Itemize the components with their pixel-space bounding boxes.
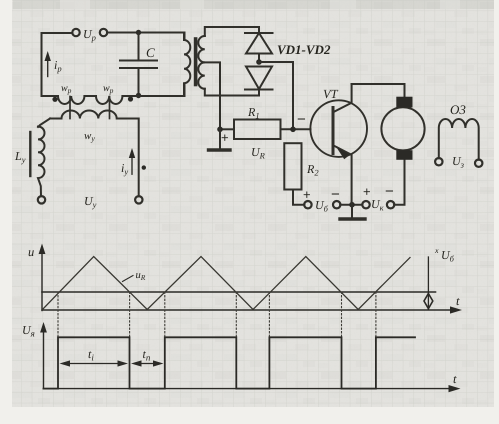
terminal OZ left bbox=[435, 158, 442, 165]
junction between diodes bbox=[256, 59, 262, 65]
terminal Up right bbox=[100, 29, 107, 36]
transistor VT emitter with arrow bbox=[334, 146, 352, 205]
wire: top rail left corner to Up left terminal bbox=[42, 33, 73, 96]
inductor Ly bbox=[38, 127, 45, 197]
dotted line crossing 3 bbox=[164, 292, 166, 337]
uR reference line bbox=[42, 291, 436, 293]
terminal +Uk bbox=[362, 201, 369, 208]
junction node plus bbox=[217, 127, 223, 133]
wire: center-tap node to R1 bbox=[220, 128, 234, 130]
svg-text:+: + bbox=[303, 187, 311, 202]
Ub level diamond arrow bbox=[424, 294, 433, 309]
svg-text:VT: VT bbox=[323, 87, 339, 101]
svg-text:−: − bbox=[331, 186, 340, 203]
plot1 y axis u bbox=[41, 248, 43, 311]
bottom rail with wp windings bbox=[42, 84, 185, 104]
svg-text:О3: О3 bbox=[450, 102, 466, 117]
resistor R1 bbox=[234, 120, 281, 140]
terminal -Ub bbox=[333, 201, 340, 208]
transformer T secondary winding bbox=[198, 36, 204, 89]
wire: collector rail to motor top bbox=[352, 84, 405, 97]
capacitor C bbox=[138, 33, 140, 61]
plot2 t axis bbox=[44, 388, 454, 390]
svg-text:−: − bbox=[385, 183, 394, 200]
dotted line crossing 4 bbox=[235, 292, 237, 337]
triangle waveform u bbox=[43, 257, 411, 310]
svg-text:t: t bbox=[456, 294, 460, 308]
tp pause arrow bbox=[135, 363, 161, 365]
dotted ordinate lines bbox=[58, 292, 376, 337]
plot1 t axis bbox=[42, 309, 455, 311]
svg-text:VD1-VD2: VD1-VD2 bbox=[277, 42, 331, 57]
core link right bbox=[109, 97, 111, 119]
ground under R1 left node bbox=[219, 129, 221, 149]
wire: diode junction to base node bbox=[259, 62, 293, 129]
transistor VT circle bbox=[310, 100, 367, 157]
svg-text:t: t bbox=[453, 372, 457, 386]
junction capacitor bottom bbox=[136, 93, 141, 98]
motor brush top bbox=[396, 97, 412, 108]
transformer core bbox=[194, 39, 198, 85]
control winding wy bbox=[50, 111, 139, 197]
wire: R1 to base node bbox=[281, 128, 311, 130]
terminal Uy right bbox=[135, 196, 142, 203]
wire: secondary top to diode VD1 bbox=[205, 27, 259, 36]
ground under emitter node bbox=[351, 205, 353, 218]
terminal OZ right bbox=[475, 160, 482, 167]
motor M circle bbox=[381, 107, 424, 150]
svg-text:+: + bbox=[363, 184, 371, 199]
terminal Up left bbox=[72, 29, 79, 36]
dotted line crossing 6 bbox=[341, 292, 343, 337]
svg-text:+: + bbox=[221, 130, 229, 145]
terminal +Ub bbox=[304, 201, 311, 208]
transformer T primary winding bbox=[184, 33, 190, 96]
excitation winding OZ bbox=[439, 119, 479, 160]
current arrow ip bbox=[47, 55, 49, 77]
dotted line crossing 5 bbox=[268, 292, 270, 337]
transistor VT collector bbox=[334, 84, 352, 112]
wire: wy left end to Ly bbox=[38, 119, 50, 128]
svg-text:−: − bbox=[297, 111, 306, 128]
wire: Up right terminal to transformer primary top bbox=[107, 33, 185, 40]
pulse waveform Uya bbox=[44, 337, 416, 388]
dotted line crossing 2 bbox=[129, 292, 131, 337]
dotted line crossing 1 bbox=[57, 292, 59, 337]
polarity dot wy bbox=[142, 165, 146, 169]
plot2 y axis Uya bbox=[43, 327, 45, 389]
svg-text:C: C bbox=[146, 45, 155, 60]
resistor R2 bbox=[284, 143, 301, 189]
diode VD2 bbox=[246, 67, 272, 90]
uR label pointer bbox=[123, 276, 134, 282]
wire: secondary center tap down to R1 node bbox=[205, 62, 220, 129]
polarity dot wp left bbox=[52, 97, 57, 102]
terminal -Uk bbox=[387, 201, 394, 208]
ti duration arrow bbox=[63, 363, 125, 365]
junction base node bbox=[290, 127, 296, 133]
svg-text:x: x bbox=[434, 246, 439, 255]
terminal Uy left bbox=[38, 196, 45, 203]
wire: -Ub terminal to emitter node bbox=[340, 204, 362, 206]
core link left bbox=[69, 97, 71, 119]
motor brush bottom bbox=[396, 150, 412, 160]
junction capacitor top bbox=[136, 30, 141, 35]
wire: R2 bottom to +Ub terminal bbox=[293, 190, 304, 205]
Ub level marker line bbox=[427, 257, 429, 310]
transistor VT base bar bbox=[332, 108, 335, 154]
diode VD1 bbox=[245, 32, 273, 34]
current arrow iy bbox=[131, 152, 133, 174]
wire: secondary bottom to diode VD2 bottom bbox=[205, 89, 259, 96]
polarity dot wp right bbox=[128, 96, 133, 101]
svg-text:u: u bbox=[28, 245, 34, 259]
junction emitter node bbox=[349, 202, 355, 208]
wire: -Uk terminal to motor bottom bbox=[394, 160, 404, 205]
inductor Ly core bar bbox=[29, 132, 31, 176]
dotted line crossing 7 bbox=[375, 292, 377, 337]
